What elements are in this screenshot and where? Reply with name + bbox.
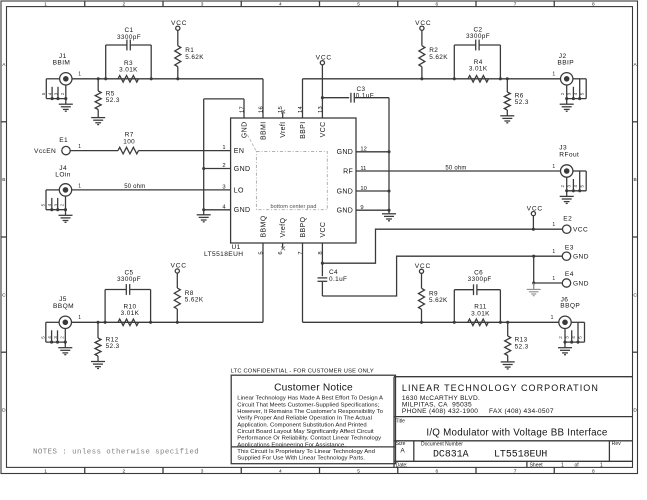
- svg-text:6: 6: [278, 251, 284, 255]
- svg-text:PHONE (408) 432-1900: PHONE (408) 432-1900: [402, 408, 478, 415]
- svg-text:5: 5: [41, 92, 46, 95]
- svg-text:C: C: [633, 292, 637, 298]
- svg-text:4: 4: [279, 469, 282, 475]
- svg-text:7: 7: [514, 469, 517, 475]
- svg-text:I/Q Modulator with Voltage BB: I/Q Modulator with Voltage BB Interface: [426, 427, 608, 438]
- svg-text:1: 1: [552, 249, 555, 255]
- svg-text:BBMQ: BBMQ: [261, 215, 268, 237]
- svg-text:5: 5: [41, 203, 46, 206]
- svg-text:BBQM: BBQM: [53, 303, 74, 310]
- svg-text:4: 4: [573, 92, 578, 95]
- svg-text:A: A: [2, 62, 6, 68]
- svg-text:VCC: VCC: [320, 222, 327, 238]
- svg-text:52.3: 52.3: [106, 97, 120, 104]
- svg-text:5: 5: [357, 2, 360, 8]
- svg-text:1: 1: [552, 72, 555, 78]
- svg-text:2: 2: [60, 92, 65, 95]
- svg-text:4: 4: [573, 185, 578, 188]
- svg-text:50 ohm: 50 ohm: [124, 184, 145, 190]
- svg-text:VCC: VCC: [527, 205, 543, 212]
- svg-text:Circuit That Meets Customer-Su: Circuit That Meets Customer-Supplied Spe…: [237, 402, 379, 408]
- svg-text:LTC CONFIDENTIAL - FOR CUSTOME: LTC CONFIDENTIAL - FOR CUSTOMER USE ONLY: [231, 369, 374, 375]
- svg-text:4: 4: [47, 336, 52, 339]
- svg-text:B: B: [633, 177, 636, 183]
- svg-text:2: 2: [60, 203, 65, 206]
- svg-text:3: 3: [566, 92, 571, 95]
- svg-text:Linear Technology Has Made A B: Linear Technology Has Made A Best Effort…: [237, 396, 383, 402]
- svg-text:BBMI: BBMI: [261, 122, 268, 141]
- svg-text:1: 1: [78, 144, 81, 150]
- svg-text:Rev: Rev: [612, 441, 621, 447]
- svg-text:Title: Title: [396, 418, 405, 424]
- svg-text:D: D: [633, 408, 637, 414]
- svg-text:3.01K: 3.01K: [119, 67, 138, 74]
- svg-text:BBQP: BBQP: [560, 302, 580, 309]
- svg-text:3: 3: [201, 2, 204, 8]
- svg-text:of: of: [575, 462, 580, 468]
- svg-text:2: 2: [560, 92, 565, 95]
- svg-text:3: 3: [201, 469, 204, 475]
- svg-text:5: 5: [578, 336, 583, 339]
- svg-text:2: 2: [123, 469, 126, 475]
- svg-text:RFout: RFout: [559, 151, 579, 158]
- svg-text:52.3: 52.3: [515, 99, 529, 106]
- svg-text:Verify Proper And Reliable Ope: Verify Proper And Reliable Operation In …: [237, 416, 372, 422]
- svg-text:1: 1: [78, 72, 81, 78]
- svg-text:1: 1: [78, 315, 81, 321]
- svg-text:GND: GND: [234, 166, 251, 173]
- svg-text:3300pF: 3300pF: [468, 276, 492, 283]
- svg-text:5.62K: 5.62K: [185, 297, 204, 304]
- svg-text:6: 6: [436, 2, 439, 8]
- svg-text:1: 1: [551, 315, 554, 321]
- svg-text:3: 3: [54, 92, 59, 95]
- svg-text:2: 2: [59, 336, 64, 339]
- svg-text:52.3: 52.3: [106, 343, 120, 350]
- svg-text:VCC: VCC: [415, 263, 431, 270]
- svg-text:LT5518EUH: LT5518EUH: [494, 449, 547, 460]
- svg-text:52.3: 52.3: [515, 343, 529, 350]
- svg-text:LOin: LOin: [55, 172, 71, 179]
- svg-text:GND: GND: [242, 122, 249, 139]
- svg-text:3.01K: 3.01K: [121, 310, 140, 317]
- svg-text:1: 1: [78, 184, 81, 190]
- svg-text:3300pF: 3300pF: [466, 33, 490, 40]
- svg-text:GND: GND: [573, 254, 589, 261]
- svg-text:VCC: VCC: [415, 20, 431, 27]
- svg-text:VCC: VCC: [171, 20, 187, 27]
- svg-text:Size: Size: [396, 441, 406, 447]
- svg-text:5: 5: [41, 336, 46, 339]
- svg-text:1: 1: [552, 276, 555, 282]
- svg-text:GND: GND: [337, 188, 354, 195]
- svg-text:4: 4: [47, 92, 52, 95]
- svg-text:Circuit Board Layout May Signi: Circuit Board Layout May Significantly A…: [237, 429, 374, 435]
- svg-text:0.1uF: 0.1uF: [356, 92, 374, 99]
- svg-text:E4: E4: [565, 271, 574, 278]
- svg-text:NOTES : unless otherwise speci: NOTES : unless otherwise specified: [33, 449, 199, 457]
- svg-text:DC831A: DC831A: [433, 449, 469, 460]
- svg-text:1: 1: [44, 469, 47, 475]
- svg-text:3300pF: 3300pF: [117, 34, 141, 41]
- svg-text:8: 8: [592, 469, 595, 475]
- svg-text:GND: GND: [337, 208, 354, 215]
- svg-text:B: B: [2, 177, 5, 183]
- svg-text:5.62K: 5.62K: [429, 297, 448, 304]
- svg-text:5: 5: [579, 185, 584, 188]
- svg-text:VCC: VCC: [573, 227, 588, 234]
- svg-text:1: 1: [561, 462, 564, 468]
- svg-text:2: 2: [560, 185, 565, 188]
- svg-text:5: 5: [579, 92, 584, 95]
- svg-text:LT5518EUH: LT5518EUH: [204, 251, 243, 258]
- svg-text:VCC: VCC: [171, 263, 187, 270]
- svg-text:2: 2: [123, 2, 126, 8]
- svg-text:5.62K: 5.62K: [429, 54, 448, 61]
- svg-text:LINEAR TECHNOLOGY CORPORATION: LINEAR TECHNOLOGY CORPORATION: [402, 383, 599, 393]
- svg-text:100: 100: [123, 138, 135, 145]
- svg-text:5.62K: 5.62K: [185, 54, 204, 61]
- svg-text:bottom center pad: bottom center pad: [270, 204, 316, 210]
- svg-text:VCC: VCC: [316, 54, 332, 61]
- svg-text:VrefI: VrefI: [280, 122, 287, 138]
- svg-text:3: 3: [53, 203, 58, 206]
- svg-text:BBIM: BBIM: [53, 60, 71, 67]
- svg-text:50 ohm: 50 ohm: [445, 165, 466, 171]
- svg-text:VccEN: VccEN: [34, 148, 56, 155]
- svg-text:4: 4: [571, 336, 576, 339]
- svg-text:E2: E2: [563, 216, 572, 223]
- svg-text:BBPI: BBPI: [300, 122, 307, 139]
- svg-text:Sheet: Sheet: [530, 462, 544, 468]
- svg-text:6: 6: [436, 469, 439, 475]
- svg-text:3300pF: 3300pF: [117, 276, 141, 283]
- svg-text:3: 3: [565, 336, 570, 339]
- svg-text:8: 8: [592, 2, 595, 8]
- svg-text:Performance Or Reliability. Co: Performance Or Reliability. Contact Line…: [237, 436, 381, 442]
- svg-text:Customer Notice: Customer Notice: [274, 383, 353, 394]
- svg-text:3: 3: [566, 185, 571, 188]
- svg-text:FAX (408) 434-0507: FAX (408) 434-0507: [489, 408, 554, 415]
- svg-text:E1: E1: [59, 137, 68, 144]
- svg-text:4: 4: [279, 2, 282, 8]
- svg-text:LO: LO: [234, 187, 244, 194]
- svg-text:Date:: Date:: [396, 462, 408, 468]
- svg-text:3: 3: [53, 336, 58, 339]
- svg-text:GND: GND: [234, 207, 251, 214]
- svg-text:5: 5: [357, 469, 360, 475]
- svg-text:1: 1: [552, 164, 555, 170]
- svg-text:D: D: [2, 408, 6, 414]
- svg-text:Application. Component Substit: Application. Component Substitution And …: [237, 422, 366, 428]
- svg-text:7: 7: [514, 2, 517, 8]
- svg-text:3.01K: 3.01K: [469, 66, 488, 73]
- svg-text:GND: GND: [573, 280, 589, 287]
- svg-text:GND: GND: [337, 149, 354, 156]
- svg-text:4: 4: [47, 203, 52, 206]
- svg-text:3.01K: 3.01K: [471, 310, 490, 317]
- svg-text:A: A: [400, 448, 405, 455]
- svg-text:Document Number: Document Number: [421, 441, 463, 447]
- svg-text:EN: EN: [234, 148, 244, 155]
- svg-text:2: 2: [558, 336, 563, 339]
- svg-text:RF: RF: [343, 168, 353, 175]
- svg-text:U1: U1: [232, 244, 241, 251]
- svg-text:BBIP: BBIP: [557, 60, 574, 67]
- svg-text:0.1uF: 0.1uF: [329, 276, 347, 283]
- svg-text:VCC: VCC: [320, 122, 327, 138]
- svg-text:1: 1: [44, 2, 47, 8]
- svg-text:1: 1: [552, 222, 555, 228]
- svg-text:E3: E3: [565, 245, 574, 252]
- svg-text:BBPQ: BBPQ: [300, 216, 307, 237]
- svg-text:1: 1: [600, 462, 603, 468]
- svg-text:C: C: [2, 292, 6, 298]
- svg-text:C4: C4: [329, 269, 338, 276]
- svg-text:VrefQ: VrefQ: [280, 218, 287, 238]
- svg-text:Supplied For Use With Linear T: Supplied For Use With Linear Technology …: [237, 456, 365, 462]
- svg-text:This Circuit Is Proprietary To: This Circuit Is Proprietary To Linear Te…: [237, 449, 375, 455]
- svg-text:A: A: [633, 62, 637, 68]
- svg-text:However, It Remains The Custom: However, It Remains The Customer's Respo…: [237, 409, 383, 415]
